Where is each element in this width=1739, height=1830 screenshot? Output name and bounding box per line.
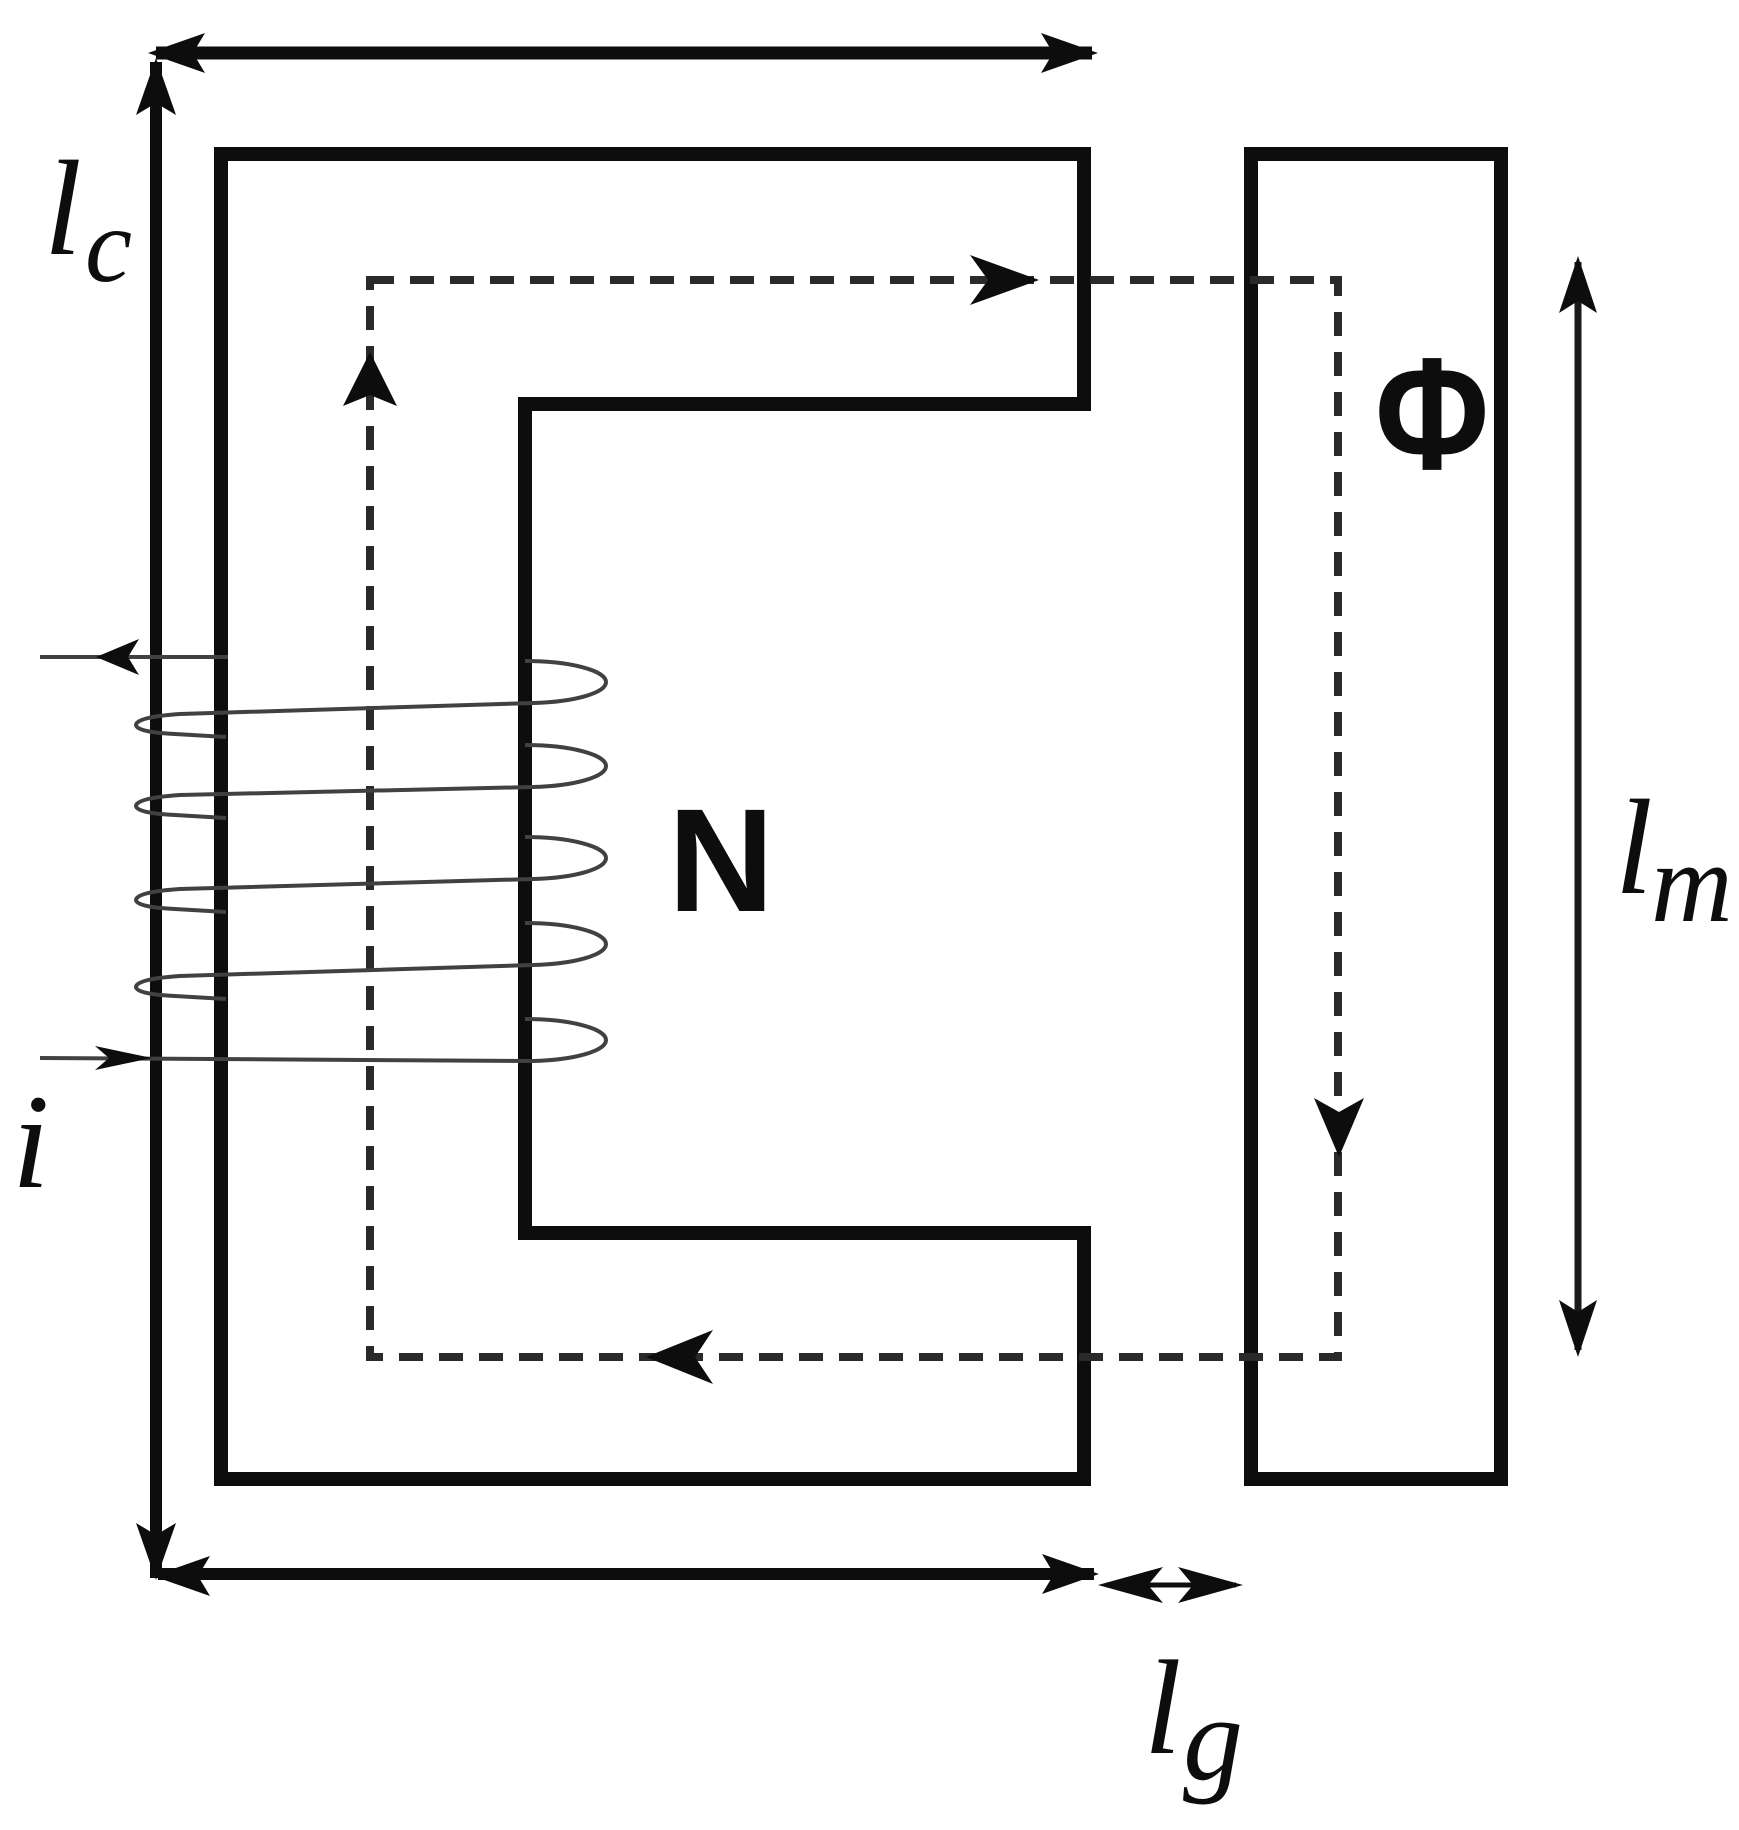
svg-text:Φ: Φ xyxy=(1375,324,1489,503)
svg-text:l: l xyxy=(1144,1634,1182,1783)
svg-text:g: g xyxy=(1183,1672,1243,1805)
svg-text:l: l xyxy=(44,134,82,284)
svg-text:l: l xyxy=(1615,773,1653,923)
svg-text:c: c xyxy=(85,187,132,304)
svg-text:N: N xyxy=(668,779,774,943)
svg-text:i: i xyxy=(12,1068,50,1217)
svg-text:m: m xyxy=(1651,821,1733,946)
